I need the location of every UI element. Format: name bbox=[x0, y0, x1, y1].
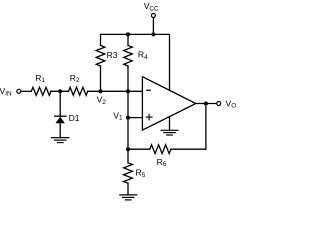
terminal VCC bbox=[144, 1, 159, 18]
svg-text:R4: R4 bbox=[138, 50, 148, 61]
wire top supply rail bbox=[101, 34, 170, 90]
wire V1 down to R5/R6 junction bbox=[127, 118, 129, 163]
resistor R5 bbox=[124, 163, 146, 183]
svg-text:R1: R1 bbox=[35, 73, 45, 84]
diode D1 bbox=[55, 113, 80, 123]
node output junction bbox=[204, 102, 208, 106]
resistor R1 bbox=[31, 73, 51, 95]
wire R4 bottom lead bbox=[127, 66, 129, 91]
wire feedback from output down to R6 bbox=[205, 104, 207, 150]
node R4 top junction bbox=[126, 32, 130, 36]
resistor R4 bbox=[124, 45, 148, 66]
svg-text:D1: D1 bbox=[69, 113, 80, 123]
resistor R6 bbox=[150, 145, 171, 168]
wire D1 to ground bbox=[59, 123, 61, 137]
wire op-amp ground pin bbox=[169, 117, 171, 130]
svg-text:VO: VO bbox=[226, 98, 237, 109]
wire VCC to rail bbox=[152, 18, 154, 35]
op-amp U1 bbox=[142, 77, 195, 130]
svg-text:V2: V2 bbox=[97, 95, 107, 106]
wire V2 junction down to V1 bbox=[127, 91, 129, 117]
node V2 bbox=[97, 89, 107, 106]
wire R6 right lead to feedback line bbox=[171, 148, 206, 150]
wire VIN to R1 bbox=[21, 90, 31, 92]
wire R3 bottom lead bbox=[100, 66, 102, 91]
wire R2 to op-amp inverting input bbox=[88, 90, 143, 92]
svg-text:VCC: VCC bbox=[144, 1, 159, 12]
wire D1 anode lead bbox=[59, 91, 61, 116]
wire R1 to R2 bbox=[51, 90, 69, 92]
svg-text:R5: R5 bbox=[136, 168, 146, 179]
resistor R3 bbox=[96, 45, 118, 66]
svg-text:R2: R2 bbox=[70, 73, 80, 84]
svg-text:VIN: VIN bbox=[0, 86, 12, 97]
ground below R5 bbox=[120, 195, 137, 200]
node VCC rail junction bbox=[151, 32, 155, 36]
node V1 bbox=[113, 110, 130, 121]
wire op-amp output bbox=[196, 103, 217, 105]
resistor R2 bbox=[69, 73, 88, 95]
svg-text:R3: R3 bbox=[107, 50, 118, 60]
node R5/R6 junction bbox=[126, 147, 130, 151]
wire V1 to op-amp non-inverting input bbox=[128, 117, 142, 119]
svg-text:R6: R6 bbox=[157, 157, 167, 168]
svg-text:V1: V1 bbox=[113, 110, 123, 121]
ground op-amp bbox=[161, 130, 178, 135]
node junction R1/R2/D1 bbox=[58, 89, 62, 93]
wire R4 top lead bbox=[127, 34, 129, 45]
wire R3 top lead bbox=[100, 34, 102, 45]
terminal VIN bbox=[0, 86, 21, 97]
wire R6 left lead from junction bbox=[128, 148, 150, 150]
wire R5 to ground bbox=[127, 183, 129, 195]
terminal VO bbox=[217, 98, 237, 109]
ground below D1 bbox=[52, 138, 69, 143]
node R4/V2 wire junction bbox=[126, 89, 130, 93]
